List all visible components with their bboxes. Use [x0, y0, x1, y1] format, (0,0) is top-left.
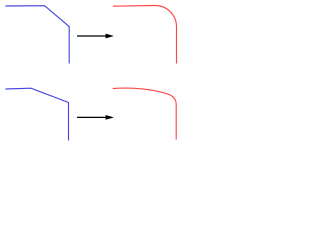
arrow (bottom) — [77, 115, 114, 120]
arrow (top) — [77, 34, 114, 39]
red result path with rounded corner (top) — [113, 6, 177, 64]
blue source path with sharp chamfered corner (top) — [6, 6, 70, 64]
blue source path with shallow chamfered corner (bottom) — [6, 88, 69, 140]
red result path with gentle rounded corner (bottom) — [113, 88, 177, 139]
